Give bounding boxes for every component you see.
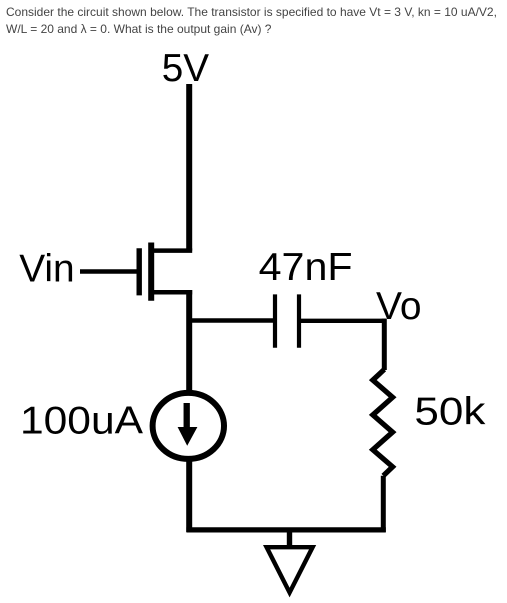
transistor M1 gate bar — [136, 248, 141, 295]
wire bottom rail — [186, 527, 385, 532]
wire current source to bottom — [186, 459, 192, 532]
current source I1 arrow shaft — [184, 403, 190, 430]
wire drain tap — [151, 248, 192, 253]
svg-text:47nF: 47nF — [259, 246, 353, 289]
wire ground stem — [287, 530, 292, 546]
question text — [6, 4, 506, 39]
wire 5V rail (drain rail) — [186, 84, 192, 251]
wire source tap — [151, 290, 192, 295]
current source I1 arrow head — [178, 427, 198, 446]
wire Vo rail down to resistor — [382, 319, 387, 370]
transistor M1 channel bar — [148, 243, 154, 301]
svg-text:50k: 50k — [414, 391, 486, 434]
wire node branch to capacitor — [187, 318, 273, 322]
capacitor C1 right plate — [297, 294, 301, 347]
wire source rail down — [186, 290, 192, 391]
svg-text:5V: 5V — [162, 47, 209, 90]
resistor R1 zigzag — [373, 369, 393, 475]
wire gate lead — [80, 269, 137, 273]
current source I1 circle — [153, 393, 224, 459]
ground symbol triangle — [263, 545, 316, 597]
svg-text:100uA: 100uA — [20, 400, 143, 443]
wire resistor bottom lead — [381, 476, 386, 532]
wire capacitor to Vo — [301, 319, 387, 323]
svg-text:Vin: Vin — [19, 247, 74, 290]
capacitor C1 left plate — [273, 294, 277, 347]
